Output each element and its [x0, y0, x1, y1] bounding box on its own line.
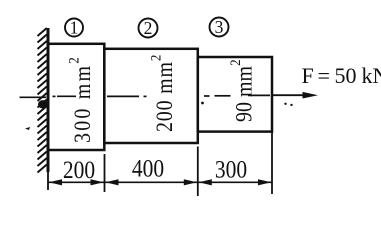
segment 3 bar (90 mm2)	[198, 57, 272, 132]
wall hatching	[38, 28, 47, 173]
svg-text:200: 200	[63, 156, 95, 184]
artifact dots under force arrow	[284, 103, 286, 105]
label circle 2	[139, 19, 158, 38]
svg-text:3: 3	[215, 17, 224, 37]
svg-text:2: 2	[144, 18, 153, 38]
wall extension line	[47, 172, 49, 190]
svg-text:300 mm2: 300 mm2	[67, 55, 96, 143]
force arrowhead	[303, 92, 319, 99]
dimension line	[48, 181, 272, 183]
label circle 3	[210, 18, 229, 37]
dim arrowheads	[49, 179, 62, 185]
segment 2 bar (200 mm2)	[104, 49, 198, 143]
segment 1 bar (300 mm2)	[48, 44, 104, 150]
svg-text:90 mm2: 90 mm2	[228, 59, 257, 122]
force arrow shaft	[272, 94, 307, 96]
small artifact mark	[25, 127, 30, 130]
label circle 1	[65, 19, 83, 37]
wall face line	[47, 28, 50, 172]
svg-text:400: 400	[132, 155, 164, 183]
svg-text:F=50kN: F=50kN	[302, 63, 381, 88]
centerline axis dash-dot	[20, 95, 271, 97]
extension tick at 272	[271, 132, 273, 194]
artifact dots near boundary 2-3	[201, 102, 204, 105]
svg-text:200 mm2: 200 mm2	[149, 54, 178, 132]
axis blob artifact at wall	[38, 100, 48, 108]
extension tick at 104.5	[104, 154, 106, 192]
svg-text:1: 1	[70, 17, 79, 37]
svg-text:300: 300	[215, 156, 247, 184]
extension tick at 197.8	[197, 147, 199, 197]
